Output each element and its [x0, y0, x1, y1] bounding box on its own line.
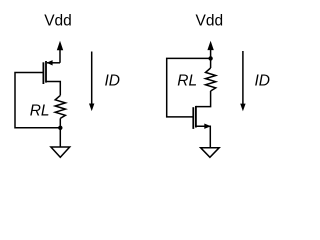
svg-text:ID: ID	[105, 72, 121, 89]
svg-text:Vdd: Vdd	[196, 13, 224, 30]
svg-text:RL: RL	[177, 72, 197, 89]
svg-text:ID: ID	[255, 72, 271, 89]
svg-text:Vdd: Vdd	[44, 13, 72, 30]
svg-text:RL: RL	[30, 103, 50, 120]
